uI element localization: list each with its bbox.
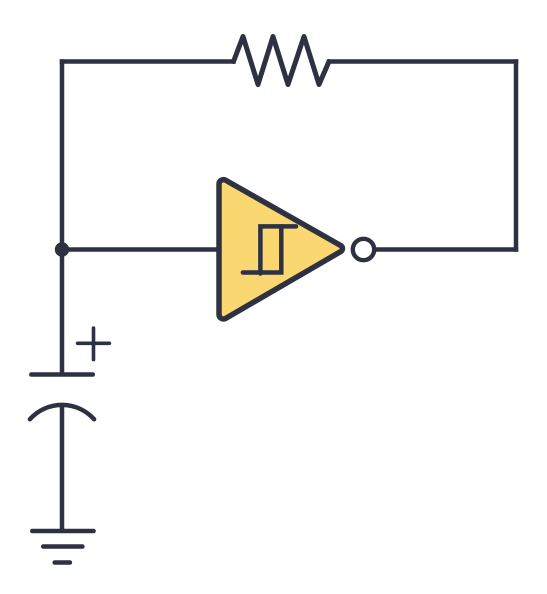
capacitor C1 plus polarity sign: [78, 328, 110, 360]
wire top-right segment (resistor to right corner): [329, 59, 516, 64]
wire left side (top corner down to capacitor): [60, 59, 65, 374]
ground bar 2: [43, 544, 82, 549]
hysteresis symbol (falling step): [260, 226, 296, 273]
resistor R1: [234, 37, 330, 85]
wire input (node A to inverter): [62, 247, 219, 252]
hysteresis symbol (rising step): [243, 226, 281, 272]
inversion bubble at U1 output: [353, 239, 374, 260]
op-amp U1 (Schmitt-trigger inverter triangle): [219, 180, 342, 319]
wire top-left segment (node A to resistor): [62, 59, 234, 64]
wire right side (down to output): [514, 59, 519, 252]
wire capacitor to ground: [60, 405, 65, 534]
ground bar 3: [55, 560, 70, 565]
capacitor C1 top plate (straight, positive): [31, 372, 93, 377]
capacitor C1 bottom plate (curved, negative): [30, 405, 94, 419]
ground bar 1: [32, 529, 93, 534]
node A junction dot: [55, 242, 69, 256]
wire output (bubble to right side): [374, 247, 516, 252]
